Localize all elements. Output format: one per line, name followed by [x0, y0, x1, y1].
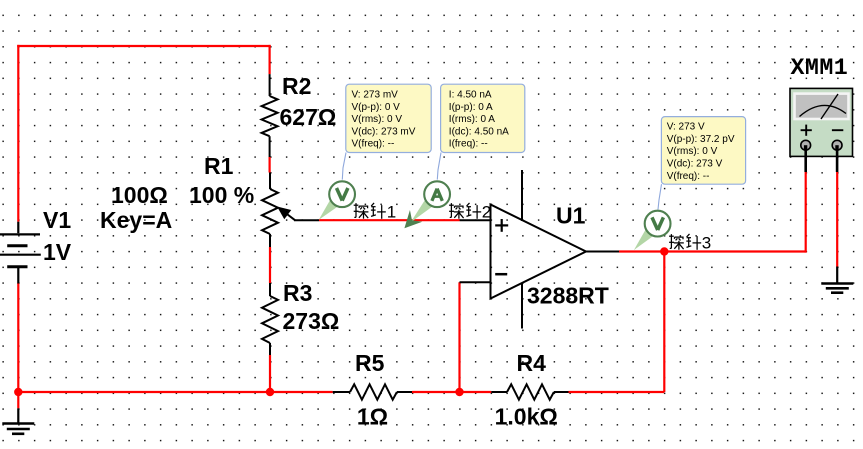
- tooltip box probe2: [441, 84, 525, 152]
- tooltip box probe3: [661, 117, 745, 185]
- svg-text:627Ω: 627Ω: [280, 104, 337, 130]
- battery V1: [0, 222, 41, 284]
- wire ground stem left red: [17, 392, 19, 408]
- junction dot feedback node: [455, 388, 463, 396]
- wire R1 to R3: [269, 247, 271, 283]
- svg-text:Key=A: Key=A: [100, 207, 172, 233]
- svg-text:R5: R5: [355, 350, 385, 376]
- wire R2 to R1: [269, 157, 271, 173]
- svg-text:1V: 1V: [43, 239, 72, 265]
- svg-text:I(rms): 0 A: I(rms): 0 A: [449, 114, 495, 125]
- wire R3 to bottom rail: [269, 355, 271, 392]
- ground right (XMM1): [821, 267, 853, 293]
- wire battery bottom: [17, 283, 19, 393]
- svg-text:V: 273 mV: V: 273 mV: [352, 90, 399, 101]
- svg-text:I(p-p): 0 A: I(p-p): 0 A: [449, 102, 493, 113]
- wire output node down: [663, 252, 665, 393]
- svg-text:100Ω: 100Ω: [111, 182, 168, 208]
- svg-text:3: 3: [702, 233, 711, 252]
- ground left: [2, 408, 34, 434]
- svg-text:273Ω: 273Ω: [283, 308, 340, 334]
- svg-text:R1: R1: [204, 153, 234, 179]
- tooltip leader probe3: [658, 184, 662, 209]
- wire feedback vertical: [458, 282, 460, 392]
- tooltip leader probe1: [342, 153, 346, 180]
- svg-text:3288RT: 3288RT: [527, 283, 609, 309]
- op-amp minus pin mark: [495, 273, 507, 276]
- svg-text:1Ω: 1Ω: [357, 404, 388, 430]
- probe2 label: [449, 202, 491, 221]
- wire R2 top: [269, 45, 271, 74]
- svg-text:R4: R4: [517, 350, 547, 376]
- wire bottom rail segment 3: [569, 391, 665, 393]
- svg-text:V(dc): 273 V: V(dc): 273 V: [667, 159, 723, 170]
- svg-text:V1: V1: [43, 207, 71, 233]
- wire middle input: [319, 219, 460, 221]
- probe3 voltage probe symbol: [634, 211, 671, 250]
- svg-text:U1: U1: [556, 203, 586, 229]
- svg-text:I(freq): --: I(freq): --: [449, 139, 488, 150]
- junction dot output node: [660, 247, 668, 255]
- resistor R4: [491, 384, 568, 399]
- resistor R5: [333, 384, 412, 399]
- wire bottom rail segment 1: [18, 391, 332, 393]
- svg-text:1.0kΩ: 1.0kΩ: [495, 404, 558, 430]
- svg-text:V: 273 V: V: 273 V: [667, 122, 705, 133]
- wire output horizontal: [619, 250, 806, 252]
- probe1 label: [354, 202, 397, 221]
- svg-text:V(dc): 273 mV: V(dc): 273 mV: [352, 126, 416, 137]
- tooltip leader probe2: [437, 153, 441, 180]
- wire XMM plus vertical: [805, 172, 807, 253]
- svg-text:100 %: 100 %: [189, 182, 254, 208]
- svg-text:1: 1: [387, 202, 396, 221]
- svg-text:V(p-p): 37.2 pV: V(p-p): 37.2 pV: [667, 134, 735, 145]
- svg-text:V(freq): --: V(freq): --: [352, 139, 395, 150]
- svg-text:R3: R3: [283, 280, 312, 306]
- resistor R2: [262, 74, 278, 157]
- wire top horizontal: [17, 45, 271, 47]
- resistor R3: [262, 283, 278, 355]
- wire left vertical: [17, 45, 19, 222]
- svg-text:V(rms): 0 V: V(rms): 0 V: [352, 114, 403, 125]
- svg-text:V(freq): --: V(freq): --: [667, 171, 710, 182]
- svg-text:V(rms): 0 V: V(rms): 0 V: [667, 146, 718, 157]
- probe3 label: [669, 233, 711, 252]
- op-amp U1: [460, 170, 620, 329]
- svg-text:V(p-p): 0 V: V(p-p): 0 V: [352, 102, 401, 113]
- svg-text:XMM1: XMM1: [791, 55, 849, 81]
- probe2 current probe symbol: [398, 181, 450, 234]
- svg-text:I(dc): 4.50 nA: I(dc): 4.50 nA: [449, 126, 509, 137]
- XMM1 multimeter icon: [790, 88, 853, 172]
- tooltip box probe1: [346, 84, 431, 152]
- junction dot bottom-left node: [14, 388, 22, 396]
- potentiometer R1: [262, 173, 278, 248]
- wire bottom rail segment 2: [412, 391, 491, 393]
- svg-text:R2: R2: [282, 73, 311, 99]
- op-amp plus pin mark: [495, 219, 508, 232]
- svg-text:2: 2: [482, 202, 491, 221]
- potentiometer R1 wiper: [274, 202, 319, 220]
- wire XMM minus vertical: [836, 172, 838, 267]
- probe1 voltage probe symbol: [319, 181, 355, 220]
- junction dot R3 bottom node: [266, 388, 274, 396]
- svg-text:I: 4.50 nA: I: 4.50 nA: [449, 90, 492, 101]
